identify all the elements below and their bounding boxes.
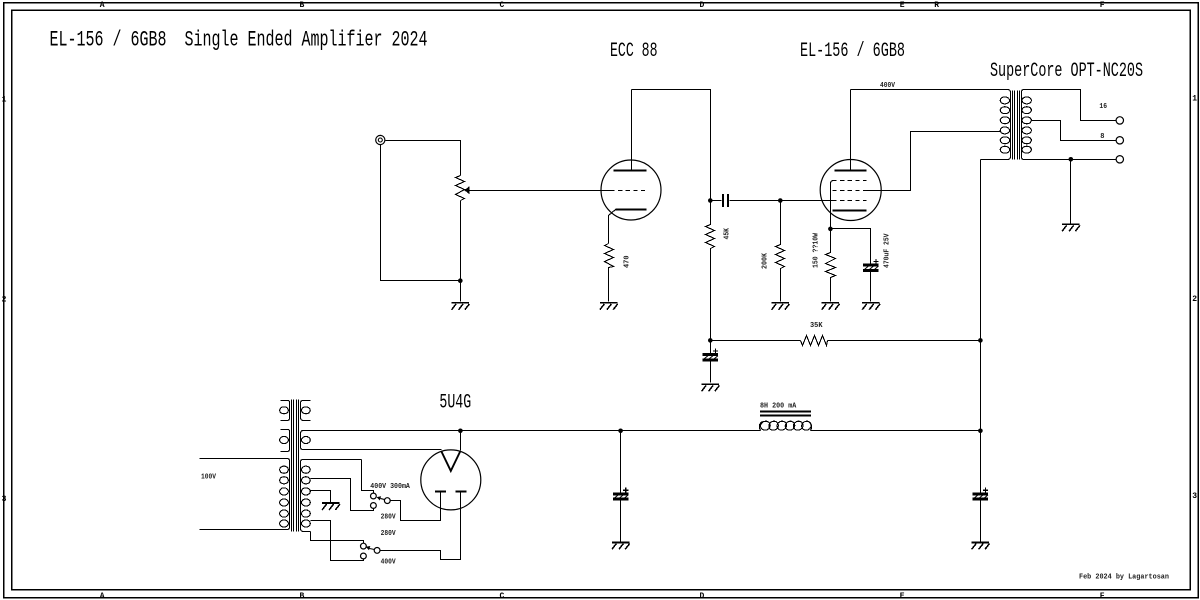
ground under R3: [772, 303, 790, 310]
svg-text:470: 470: [624, 256, 632, 269]
wire HV lower tap to SW2: [311, 521, 364, 561]
wire SW1 common to 5U4G left plate: [391, 493, 441, 521]
OPT T2 core: [1013, 91, 1020, 160]
V1 grid: [611, 190, 647, 192]
switch SW2 voltage selector: [361, 543, 381, 559]
wire V1 plate to coupling node: [632, 90, 711, 201]
svg-text:3: 3: [1192, 492, 1197, 501]
svg-text:100V: 100V: [201, 474, 217, 482]
input jack J1: [376, 135, 385, 144]
wire HV center tap to ground: [311, 491, 331, 503]
svg-text:R: R: [934, 1, 939, 10]
potentiometer wiper arrow: [464, 186, 469, 194]
V2 screen grid g2: [833, 190, 867, 192]
junction left filter cap: [618, 429, 623, 434]
V2 g3-cathode internal lead: [831, 181, 834, 229]
OPT T2 secondary winding: [1022, 90, 1032, 160]
T1 5V winding: [301, 431, 442, 450]
junction V2 cathode node: [828, 227, 833, 232]
V2 control grid g1: [833, 200, 867, 202]
svg-text:16: 16: [1099, 103, 1107, 111]
wire node to capacitor C1: [711, 200, 722, 202]
capacitor C5 right filter: [973, 488, 988, 542]
svg-text:2: 2: [1192, 295, 1197, 304]
svg-text:150 ??10W: 150 ??10W: [813, 232, 821, 268]
ground under OPT secondary: [1062, 224, 1080, 231]
tube V1 ECC88 envelope: [601, 160, 661, 220]
resistor R1 470: [605, 244, 614, 302]
junction B+ at rectifier: [458, 429, 463, 434]
wire HV bottom end to switch SW2: [311, 532, 364, 544]
V3 left plate: [435, 490, 446, 492]
wire SW2 common to 5U4G right plate: [381, 493, 461, 560]
svg-text:8: 8: [1100, 133, 1104, 141]
svg-text:C: C: [500, 592, 505, 600]
svg-text:8H 200 mA: 8H 200 mA: [760, 402, 797, 410]
svg-text:5U4G: 5U4G: [439, 392, 471, 415]
V2 suppressor grid g3: [833, 180, 867, 182]
wire HV top to switch SW1: [362, 460, 374, 494]
border row numbers left: [2, 95, 7, 504]
svg-text:400V 300mA: 400V 300mA: [370, 483, 410, 491]
svg-text:D: D: [700, 592, 705, 600]
svg-text:D: D: [700, 1, 705, 10]
svg-text:280V: 280V: [381, 530, 397, 538]
capacitor C1 coupling: [722, 194, 729, 207]
ground under C4: [612, 542, 630, 549]
T1 right winding top: [301, 401, 311, 421]
choke L1 core: [760, 410, 811, 416]
wire cathode node to C2: [831, 229, 871, 264]
wire C2 to ground: [870, 272, 872, 302]
junction 35K right: [978, 338, 983, 343]
wire wiper to V1 grid: [470, 190, 612, 192]
wire secondary top to 16 ohm terminal: [1024, 90, 1117, 121]
V2 cathode: [833, 210, 867, 212]
svg-text:F: F: [1100, 592, 1105, 600]
resistor R4 150 cathode: [826, 229, 836, 302]
wire 35K rail: [711, 340, 981, 342]
V3 filament: [441, 451, 460, 471]
wire V2 plate to OPT primary: [851, 89, 1008, 91]
tube V2 EL-156 envelope: [820, 160, 881, 221]
wire jack to pot top: [386, 141, 461, 176]
border row numbers right: [1192, 94, 1197, 501]
OPT T2 primary winding: [981, 90, 1011, 160]
svg-text:A: A: [100, 1, 105, 10]
svg-text:C: C: [500, 1, 505, 10]
wire HV 280V tap to SW1: [311, 479, 374, 511]
capacitor C3 decoupling: [703, 341, 718, 383]
svg-text:F: F: [1100, 1, 1105, 10]
wire secondary 8 ohm tap: [1032, 121, 1117, 141]
svg-text:280V: 280V: [381, 514, 397, 522]
wire secondary common to ground: [1070, 160, 1072, 224]
svg-text:B: B: [300, 592, 305, 600]
switch SW1 voltage selector: [371, 493, 391, 508]
ground under C3: [702, 384, 720, 391]
ground under R4: [822, 303, 840, 310]
junction coupling node: [708, 198, 713, 203]
potentiometer VR1: [456, 176, 465, 201]
svg-text:EL-156 / 6GB8: EL-156 / 6GB8: [800, 40, 905, 63]
wire jack down to pot bottom: [381, 145, 461, 281]
resistor R5 35K decoupling: [801, 336, 828, 346]
wire B+ main rail: [302, 430, 981, 432]
wire secondary bottom to common terminal: [1024, 159, 1117, 161]
resistor R2 45K plate load: [706, 201, 715, 341]
svg-text:200K: 200K: [762, 252, 770, 269]
svg-text:35K: 35K: [810, 322, 823, 330]
junction 35K left: [708, 338, 713, 343]
terminal 8 ohm: [1116, 137, 1123, 144]
svg-text:1: 1: [2, 95, 7, 104]
svg-text:470uF 25V: 470uF 25V: [884, 233, 892, 268]
svg-text:400V: 400V: [381, 559, 397, 567]
capacitor C2 470uF bypass: [864, 259, 879, 271]
T1 left winding mid: [280, 430, 290, 452]
terminal common: [1116, 156, 1123, 163]
junction secondary ground: [1069, 157, 1074, 162]
wire B+ riser from OPT primary: [980, 160, 982, 493]
svg-text:B: B: [300, 1, 305, 10]
V1 plate: [614, 90, 647, 171]
svg-text:E: E: [900, 592, 905, 600]
ground under T1 center tap: [322, 503, 340, 510]
ground under C5: [972, 542, 990, 549]
svg-text:EL-156 / 6GB8 Single Ended Am: EL-156 / 6GB8 Single Ended Amplifier 202…: [50, 28, 428, 53]
wire pot bottom to ground: [460, 201, 462, 302]
choke L1 winding: [759, 420, 813, 432]
V3 right plate: [456, 490, 467, 492]
wire V2 g2 to OPT tap: [867, 132, 1001, 191]
ground under C2: [862, 303, 880, 310]
svg-text:A: A: [100, 592, 105, 600]
junction choke right: [978, 429, 983, 434]
svg-text:ECC 88: ECC 88: [610, 40, 658, 63]
border zone letters bottom: [100, 592, 1105, 600]
svg-text:400V: 400V: [880, 82, 896, 90]
svg-text:SuperCore OPT-NC20S: SuperCore OPT-NC20S: [990, 60, 1143, 83]
V1 cathode: [609, 210, 647, 244]
svg-text:1: 1: [1192, 94, 1197, 103]
tube V3 5U4G envelope: [421, 450, 481, 510]
capacitor C4 left filter: [613, 431, 628, 542]
resistor R3 200K grid leak: [776, 201, 785, 302]
svg-text:45K: 45K: [724, 227, 732, 239]
junction 200K top: [778, 198, 783, 203]
border zone letters top: [100, 1, 1105, 10]
junction pot bottom: [458, 278, 463, 283]
T1 left winding top: [280, 401, 290, 421]
wire C1 to V2 grid: [730, 200, 834, 202]
wire filament to B+ rail: [460, 431, 462, 451]
T1 HV winding: [301, 460, 362, 532]
T1 primary winding 100V: [200, 459, 290, 530]
power transformer T1 core: [292, 400, 299, 532]
ground under pot: [452, 303, 470, 310]
svg-text:Feb 2024 by Lagartosan: Feb 2024 by Lagartosan: [1079, 574, 1169, 582]
ground under R1: [600, 303, 618, 310]
svg-text:2: 2: [2, 295, 7, 304]
svg-text:3: 3: [2, 495, 7, 504]
svg-text:E: E: [900, 1, 905, 10]
terminal 16 ohm: [1116, 117, 1123, 124]
V2 plate: [835, 90, 867, 171]
